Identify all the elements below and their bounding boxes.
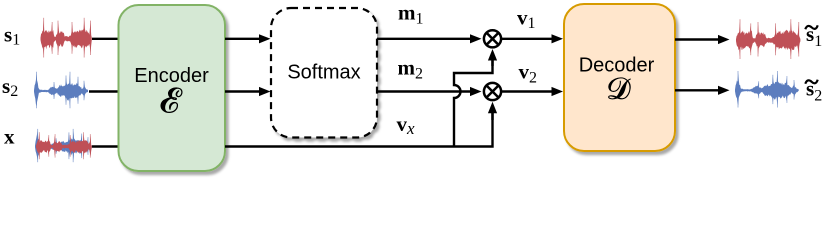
- U1 top multiplier (otimes): [484, 30, 501, 47]
- wire s1 to encoder: [92, 38, 120, 40]
- wire decoder to s1 out: [675, 38, 720, 40]
- waveform x (mixture): [35, 129, 92, 162]
- svg-text:Encoder: Encoder: [134, 65, 209, 87]
- waveform s2 (blue): [34, 72, 88, 109]
- label s1-tilde: [805, 25, 817, 29]
- waveform s2-tilde (blue): [735, 71, 799, 108]
- wire x to encoder: [92, 145, 120, 147]
- wire vx branch with hop to top multiplier: [454, 60, 493, 147]
- wire encoder to softmax (row1): [225, 38, 261, 40]
- wire encoder to softmax (row2): [225, 90, 261, 92]
- wire v1 to decoder: [502, 38, 554, 40]
- block Encoder E: [119, 5, 226, 171]
- wire m2 to multiplier: [377, 90, 472, 92]
- waveform s1 (red): [41, 18, 92, 58]
- wire s2 to encoder: [89, 90, 120, 92]
- wire v2 to decoder: [502, 90, 554, 92]
- svg-text:Decoder: Decoder: [579, 55, 655, 77]
- svg-text:Softmax: Softmax: [287, 62, 360, 84]
- block Decoder D: [564, 4, 675, 151]
- wire decoder to s2 out: [675, 89, 720, 91]
- U2 bottom multiplier (otimes): [484, 83, 501, 100]
- wire vx bottom bypass: [225, 112, 493, 147]
- waveform s1-tilde (red): [736, 19, 800, 59]
- label s2-tilde: [805, 80, 817, 84]
- wire m1 to multiplier: [377, 38, 472, 40]
- block Softmax: [271, 8, 377, 138]
- svg-text:x: x: [4, 124, 15, 148]
